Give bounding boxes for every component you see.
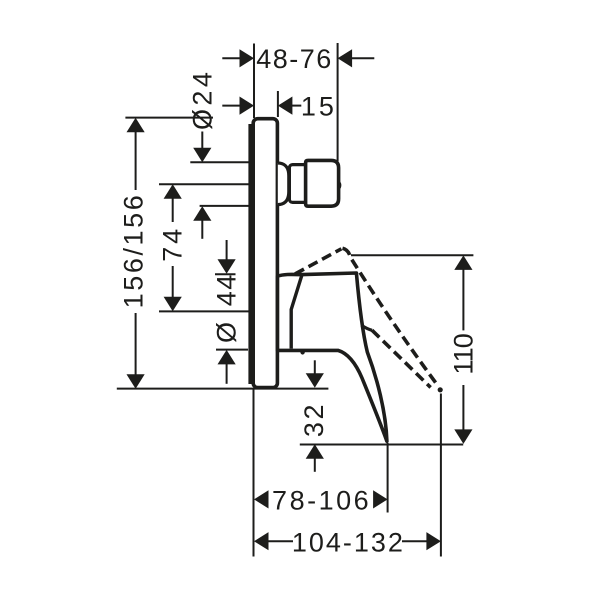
extension line handle center (y=311.4) bbox=[159, 310, 250, 312]
extension line plate bottom (y=388.6) bbox=[117, 388, 329, 390]
arrowhead 78-106 left bbox=[254, 490, 269, 508]
svg-text:156/156: 156/156 bbox=[118, 193, 148, 309]
dimension O44 vertical line bbox=[226, 240, 228, 261]
dimension 15 line tails bbox=[222, 105, 240, 107]
set screw nub under hub bbox=[300, 352, 305, 355]
arrowhead 15 right bbox=[278, 97, 293, 115]
dashed lever lower edge bbox=[372, 330, 431, 387]
arrowhead 110 up bbox=[454, 255, 472, 270]
dimension O24 vertical line bbox=[201, 132, 203, 150]
extension line plate front (for 15) bbox=[277, 91, 279, 117]
arrowhead O24 down bbox=[193, 148, 211, 163]
extension line knob top (y=162.3) bbox=[190, 161, 250, 163]
dashed lever tip cap bbox=[438, 387, 443, 392]
dimension 32 vertical line bbox=[314, 360, 316, 374]
arrowhead 78-106 right bbox=[373, 490, 388, 508]
svg-text:74: 74 bbox=[158, 226, 188, 262]
lever handle body (solid position) bbox=[278, 273, 387, 441]
dimension 104-132 line tails bbox=[268, 540, 294, 542]
arrowhead 156 down bbox=[127, 374, 145, 389]
arrowhead O44 up bbox=[218, 350, 236, 365]
outer knob bbox=[306, 160, 339, 206]
arrowhead 104-132 right bbox=[426, 532, 441, 550]
extension line dashed lever tip (x=440.9) bbox=[440, 394, 442, 557]
svg-text:110: 110 bbox=[448, 334, 478, 375]
svg-text:44: 44 bbox=[212, 273, 242, 306]
extension line hub bottom (y=349.6) bbox=[216, 349, 248, 351]
arrowhead 32 up bbox=[306, 444, 324, 459]
dimension 48-76 line tails bbox=[222, 57, 240, 59]
mid cylinder of knob bbox=[289, 165, 306, 203]
arrowhead 74 down bbox=[164, 297, 182, 312]
arrowhead 32 down bbox=[306, 373, 324, 388]
extension line knob end (top right) bbox=[337, 43, 339, 161]
dashed lever upper-left edge bbox=[295, 249, 341, 274]
svg-text:104-132: 104-132 bbox=[292, 527, 405, 557]
extension line solid lever tip (x=387.6) bbox=[387, 443, 389, 513]
svg-text:48-76: 48-76 bbox=[256, 44, 333, 74]
lever hub inner edge bbox=[291, 275, 302, 349]
arrowhead 74 up bbox=[164, 184, 182, 199]
svg-text:Ø: Ø bbox=[212, 322, 242, 343]
knob small bump bbox=[339, 182, 340, 188]
svg-text:78-106: 78-106 bbox=[272, 486, 371, 516]
back flange of concealed body bbox=[248, 124, 253, 384]
escutcheon plate bbox=[253, 119, 277, 388]
extension line lever tip bottom (y=444.5) bbox=[300, 444, 463, 446]
arrowhead O44 down bbox=[218, 259, 236, 274]
arrowhead 15 left bbox=[240, 97, 255, 115]
svg-text:Ø24: Ø24 bbox=[187, 69, 217, 130]
arrowhead 110 down bbox=[454, 429, 472, 444]
extension line plate top (y=117.6) bbox=[125, 117, 213, 119]
extension line knob bottom (y=205.9) bbox=[200, 205, 250, 207]
dimension 74 vertical line bbox=[172, 198, 174, 223]
extension line wall bottom (x=254) bbox=[253, 389, 255, 557]
dashed lever apex and right edge bbox=[343, 248, 438, 384]
extension line hub top tick (y=274.2) bbox=[215, 273, 236, 275]
lever crease stub bbox=[362, 325, 373, 330]
svg-text:15: 15 bbox=[301, 92, 337, 122]
arrowhead 104-132 left bbox=[254, 532, 269, 550]
arrowhead O24 up bbox=[193, 206, 211, 221]
dimension 110 vertical line bbox=[462, 269, 464, 330]
arrowhead 48-76 left bbox=[240, 49, 255, 67]
extension line wall (top, from 48-76 down to plate top) bbox=[253, 44, 255, 119]
dome on plate bbox=[278, 163, 289, 205]
extension line dome center (y=184.2) bbox=[159, 183, 250, 185]
extension line 110 top (y=255.2) bbox=[351, 254, 473, 256]
arrowhead 48-76 right bbox=[338, 49, 353, 67]
arrowhead 156 up bbox=[127, 118, 145, 133]
dimension 156/156 vertical line bbox=[135, 131, 137, 190]
svg-text:32: 32 bbox=[299, 402, 329, 437]
